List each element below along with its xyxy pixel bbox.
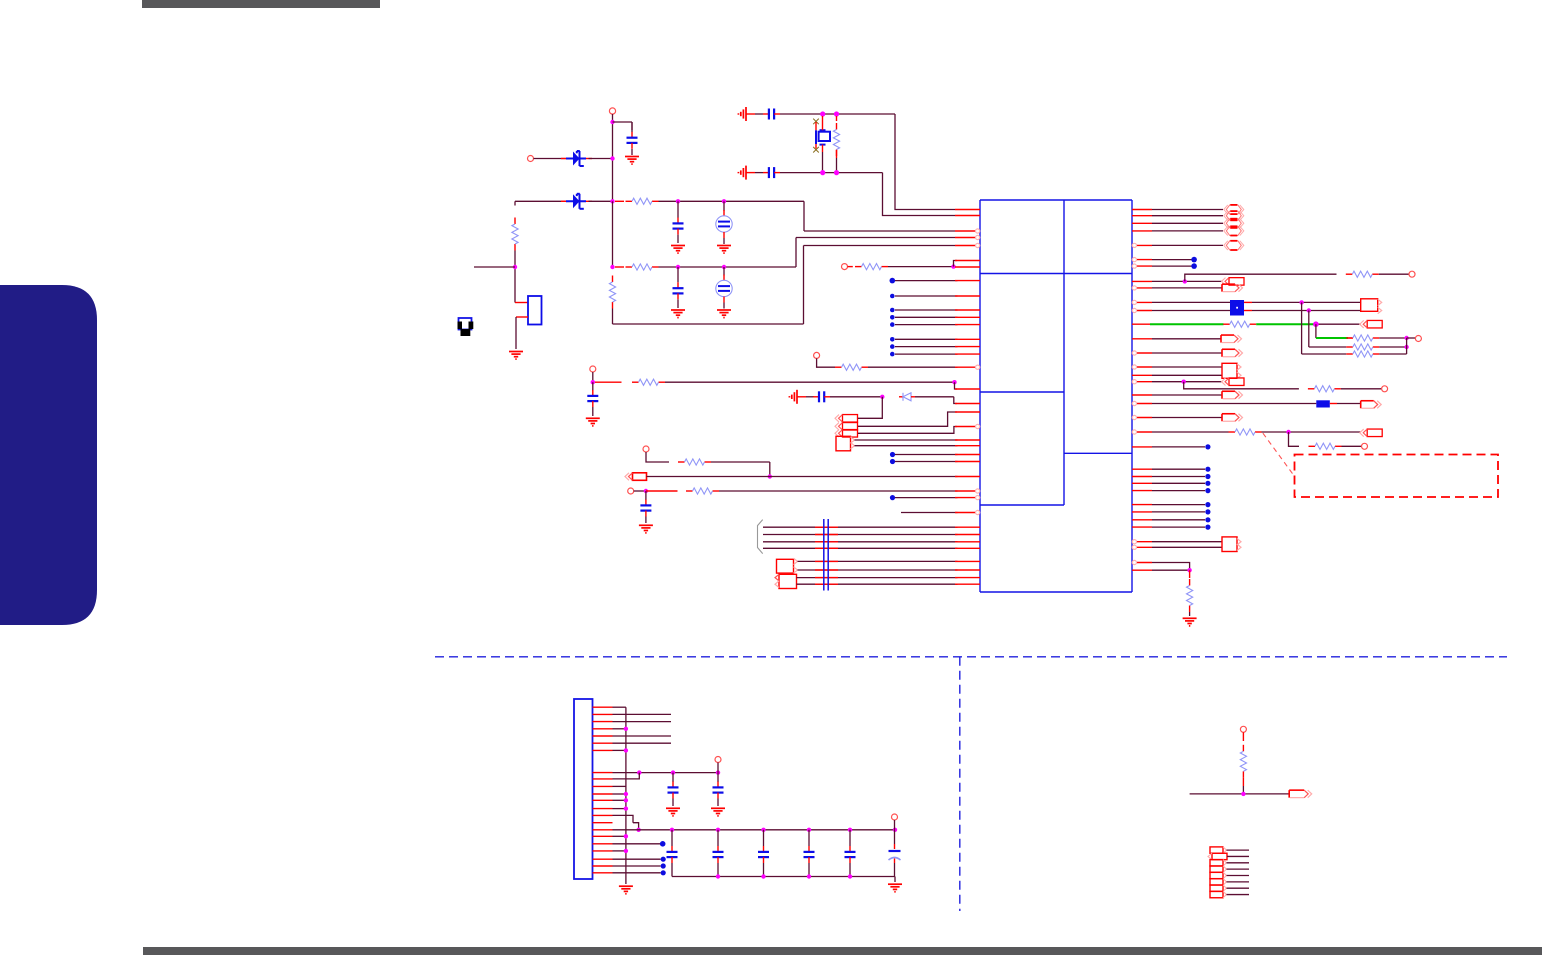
port P5 — [625, 473, 647, 481]
wire nc — [613, 858, 661, 860]
pin — [955, 411, 980, 413]
wire cap — [763, 830, 765, 877]
pin — [955, 403, 980, 405]
wire pin1 — [613, 706, 626, 708]
wire — [723, 201, 725, 211]
ground C10 — [639, 525, 653, 533]
junction — [893, 828, 897, 832]
wire branch A to IC — [804, 230, 955, 232]
junction — [820, 111, 825, 116]
capacitor C11 — [668, 782, 679, 799]
port PR10 — [1361, 401, 1382, 409]
section divider dashed vertical — [959, 657, 961, 911]
pin — [1132, 258, 1152, 262]
wire nc — [1152, 476, 1205, 478]
port PR12 — [1360, 429, 1383, 437]
port PR5 — [1221, 335, 1242, 343]
pin R5 top — [836, 116, 838, 121]
pin — [1132, 511, 1152, 513]
terminal — [715, 757, 721, 763]
port PR7 — [1222, 363, 1241, 378]
junction — [768, 474, 772, 478]
junction — [624, 798, 628, 802]
wire down — [1301, 302, 1303, 354]
wire — [1152, 546, 1222, 548]
wire P6b — [798, 569, 958, 571]
port bidir — [1224, 226, 1244, 235]
wire port — [1227, 881, 1250, 883]
port — [1210, 872, 1227, 878]
junction — [610, 199, 614, 203]
port P7 — [775, 574, 797, 588]
pin J1 — [593, 728, 613, 730]
port PR11 — [1222, 414, 1243, 422]
wire port — [1227, 894, 1250, 896]
wire — [631, 122, 633, 132]
junction — [820, 170, 825, 175]
wire — [723, 238, 725, 244]
wire to port — [1152, 244, 1223, 246]
junction — [807, 874, 811, 878]
junction — [716, 770, 720, 774]
wire P6a — [798, 560, 958, 562]
junction — [1182, 380, 1186, 384]
wire — [613, 728, 626, 730]
wire — [1152, 569, 1190, 571]
pin NC — [955, 280, 980, 282]
resistor R9 — [678, 459, 711, 465]
wire R5 to bottom — [836, 158, 838, 173]
port — [1210, 860, 1227, 866]
pin — [1132, 569, 1152, 571]
wire R9 — [711, 461, 770, 463]
wire — [1152, 541, 1222, 543]
wire bead to port — [1337, 403, 1361, 405]
wire T down — [592, 372, 594, 382]
wire terminal down — [717, 763, 719, 773]
wire R1 bottom — [514, 251, 516, 303]
no-connect X mark — [813, 147, 819, 153]
pin — [1132, 468, 1152, 470]
junction — [671, 770, 675, 774]
bus crossing — [815, 526, 838, 528]
junction — [670, 828, 674, 832]
wire R7 to IC — [868, 366, 958, 368]
wire crystal bottom — [780, 172, 883, 174]
no-connect — [890, 294, 895, 299]
wire — [1152, 352, 1222, 354]
wire to R16 — [1184, 382, 1299, 389]
pin — [1132, 230, 1152, 232]
wire — [717, 799, 719, 807]
no-connect — [661, 863, 666, 868]
terminal — [628, 488, 634, 494]
wire branch B corner — [795, 238, 797, 268]
wire terminal to rail — [894, 820, 896, 830]
pin — [1132, 280, 1152, 282]
wire stub long — [613, 735, 672, 737]
junction — [848, 874, 852, 878]
no-connect — [890, 322, 895, 327]
pin J1 — [593, 735, 613, 737]
wire — [613, 835, 626, 837]
no-connect X mark — [813, 119, 819, 125]
pin — [955, 365, 980, 369]
resistor R11 — [1346, 271, 1379, 277]
port bidir — [1224, 205, 1244, 214]
wire branch B to IC — [796, 237, 955, 239]
wire port — [1227, 887, 1250, 889]
pin L1 right — [1330, 403, 1337, 405]
wire down — [1308, 311, 1310, 348]
wire R13 — [1379, 337, 1406, 339]
wire gnd — [797, 396, 814, 398]
wire to D1 — [534, 158, 567, 160]
connector J1 — [574, 699, 593, 879]
IC U1 block — [980, 200, 1132, 592]
pin J1 — [593, 858, 613, 860]
wire nc — [1152, 519, 1205, 521]
pin X1 case bottom — [815, 144, 817, 149]
resistor R20 — [1240, 745, 1246, 778]
pin — [1132, 476, 1152, 478]
wire — [613, 793, 626, 795]
wire bus member — [763, 547, 958, 549]
no-connect — [890, 495, 895, 500]
wire cap — [894, 830, 896, 877]
terminal D1 anode — [528, 156, 534, 162]
capacitor — [713, 846, 724, 863]
wire to port — [1152, 230, 1223, 232]
resistor R18 — [1309, 443, 1342, 449]
no-connect — [1191, 257, 1197, 263]
pin — [1132, 243, 1152, 247]
side tab — [0, 285, 97, 625]
wire branch C corner — [803, 246, 805, 325]
pin — [1132, 380, 1152, 384]
diode D3 — [899, 393, 915, 401]
wire crystal top — [780, 113, 895, 115]
pin U2 right1 — [1244, 301, 1252, 303]
wire C8 bottom — [592, 407, 594, 416]
ferrite bead L1 — [1316, 400, 1330, 407]
capacitor — [667, 846, 678, 863]
pin — [1132, 560, 1152, 564]
wire port — [1227, 868, 1250, 870]
wire bus member — [763, 534, 958, 536]
pin NC — [955, 316, 980, 318]
terminal — [643, 446, 649, 452]
pin J1 — [593, 829, 613, 831]
wire nc — [1152, 265, 1192, 267]
terminal — [590, 366, 596, 372]
capacitor C4 — [673, 282, 684, 299]
wire P2 — [858, 412, 957, 426]
pin X1 case top — [815, 122, 817, 130]
capacitor C9 — [813, 391, 830, 402]
wire to port — [1152, 222, 1223, 224]
wire P7a — [797, 577, 958, 579]
wire down — [1289, 432, 1300, 446]
wire — [1152, 338, 1221, 340]
wire jog — [954, 397, 957, 404]
no-connect — [1205, 474, 1210, 479]
wire nc — [895, 454, 958, 456]
pin — [1132, 308, 1152, 312]
pin — [955, 534, 980, 536]
wire — [1152, 374, 1222, 376]
wire to C1 — [613, 121, 633, 123]
wire bus member — [763, 526, 958, 528]
pin J1 — [593, 865, 613, 867]
pin VCC — [955, 235, 980, 239]
wire cap — [849, 830, 851, 877]
icon thermistor — [458, 318, 474, 336]
resistor R4 — [609, 276, 615, 309]
resistor R3 — [626, 264, 659, 270]
pin — [1132, 394, 1152, 396]
wire — [613, 808, 626, 810]
junction — [722, 199, 726, 203]
pin — [955, 583, 980, 585]
wire stub long — [613, 721, 672, 723]
ground R19 — [1183, 618, 1197, 626]
wire — [1152, 417, 1222, 419]
resistor R10 — [686, 488, 719, 494]
wire branch C to IC — [804, 245, 956, 247]
pin — [1132, 209, 1152, 211]
no-connect — [890, 315, 895, 320]
wire to ground — [894, 877, 896, 883]
wire — [592, 382, 594, 390]
pin green — [1132, 323, 1150, 325]
junction — [951, 264, 955, 268]
wire — [1152, 280, 1223, 282]
wire green net 2 — [1256, 323, 1316, 325]
terminal VIN — [609, 108, 615, 114]
no-connect — [1205, 517, 1210, 522]
junction — [716, 874, 720, 878]
pin B1 lower — [516, 316, 528, 318]
no-connect — [1205, 481, 1210, 486]
junction — [761, 874, 765, 878]
wire nc — [613, 865, 661, 867]
pin NC — [955, 353, 980, 355]
wire — [645, 491, 647, 500]
resistor R5 — [833, 123, 839, 156]
resistor R12 — [1223, 321, 1256, 327]
pin NC — [955, 346, 980, 348]
wire green net — [1150, 323, 1224, 325]
pin NC — [955, 338, 980, 340]
pin — [1132, 286, 1152, 290]
junction — [848, 828, 852, 832]
junction — [1299, 300, 1303, 304]
pin J1 — [593, 822, 613, 824]
wire port — [1227, 862, 1250, 864]
junction — [1241, 792, 1245, 796]
ground C1 — [625, 157, 639, 165]
no-connect — [890, 278, 896, 284]
pin NC — [955, 309, 980, 311]
port P3 — [835, 430, 858, 438]
port PR9 — [1222, 391, 1243, 399]
wire P1 — [858, 397, 882, 419]
no-connect — [890, 459, 895, 464]
resistor R15 — [1346, 351, 1379, 357]
junction — [716, 828, 720, 832]
stub — [1348, 337, 1353, 339]
wire jog — [633, 823, 639, 830]
junction — [1404, 345, 1408, 349]
pin — [1132, 545, 1152, 549]
pin R2 left — [615, 200, 624, 202]
wire nc pin — [895, 338, 958, 340]
port bidir — [1224, 241, 1244, 250]
pin J1 — [593, 835, 613, 837]
terminal — [1362, 443, 1368, 449]
wire R1 top — [514, 201, 516, 205]
wire — [1152, 366, 1222, 368]
wire cap — [717, 830, 719, 877]
junction — [624, 727, 628, 731]
wire terminal down — [646, 452, 669, 462]
wire — [613, 785, 626, 787]
wire to terminal — [1407, 337, 1416, 339]
resistor R8 — [632, 379, 665, 385]
junction — [761, 828, 765, 832]
bus bracket — [758, 520, 763, 554]
no-connect — [1205, 444, 1210, 449]
terminal — [842, 264, 848, 270]
crystal X1 — [816, 130, 830, 144]
pin J1 — [593, 808, 613, 810]
junction — [676, 199, 680, 203]
pin R8 left — [595, 381, 622, 383]
ground — [789, 390, 797, 404]
power rail — [613, 829, 896, 831]
junction — [636, 828, 640, 832]
wire C10 bottom — [645, 517, 647, 524]
port — [1210, 885, 1227, 891]
wire branch A corner — [803, 201, 805, 231]
pin — [1132, 490, 1152, 492]
pin — [955, 569, 980, 571]
wire nc pin — [895, 316, 958, 318]
junction — [834, 111, 839, 116]
port bidir — [1224, 219, 1244, 228]
no-connect — [1205, 502, 1210, 507]
no-connect — [890, 352, 895, 357]
wire — [613, 799, 626, 801]
zener diode D2 — [561, 194, 592, 209]
polarized capacitor C5 — [716, 275, 732, 303]
pin — [1132, 338, 1152, 340]
pin — [1132, 482, 1152, 484]
pin J1 — [593, 706, 613, 708]
pin — [955, 424, 980, 428]
resistor R6 — [855, 264, 888, 270]
pin R19 top — [1189, 570, 1191, 578]
wire R12 to port — [1316, 323, 1361, 325]
wire X1 to bottom — [822, 152, 824, 173]
wire stub long — [613, 713, 672, 715]
terminal — [1415, 336, 1421, 342]
pin — [955, 266, 980, 268]
pin X1 bottom — [822, 145, 824, 152]
wire gnd-cap2 — [746, 172, 763, 174]
junction — [1187, 568, 1191, 572]
wire R17 to port — [1262, 431, 1361, 433]
pin — [955, 260, 980, 262]
pin — [955, 547, 980, 549]
ground C8 — [586, 418, 600, 426]
port P2 — [835, 423, 858, 431]
wire nc — [1152, 468, 1205, 470]
wire port — [1227, 875, 1250, 877]
pin J1 — [593, 793, 613, 795]
pin — [1132, 365, 1152, 369]
wire to diode — [830, 396, 882, 398]
capacitor — [845, 846, 856, 863]
pin J1 — [593, 742, 613, 744]
wire net — [1190, 793, 1290, 795]
pin J1 — [593, 850, 613, 852]
terminal — [1409, 271, 1415, 277]
pin — [1132, 540, 1152, 544]
port — [1210, 879, 1227, 885]
junction — [624, 792, 628, 796]
pin VREF — [955, 243, 980, 247]
wire nc pin — [895, 295, 958, 297]
pin VBAT — [955, 229, 980, 233]
pin — [955, 541, 980, 543]
footer bar — [143, 947, 1542, 955]
no-connect — [890, 344, 895, 349]
wire jog up — [613, 773, 640, 779]
wire nc — [1152, 490, 1205, 492]
capacitor — [804, 846, 815, 863]
note dashed leader — [1263, 433, 1294, 475]
junction — [1313, 321, 1319, 327]
pin — [955, 577, 980, 579]
pin — [1132, 526, 1152, 528]
junction — [1183, 279, 1187, 283]
junction — [624, 849, 628, 853]
wire jog — [1152, 563, 1190, 571]
wire — [1152, 310, 1230, 312]
wire vertical join — [1406, 338, 1408, 354]
pin — [955, 476, 980, 478]
ground C3 — [717, 246, 731, 254]
resistor R7 — [835, 364, 868, 370]
wire row2 — [1309, 346, 1347, 348]
no-connect — [890, 308, 895, 313]
capacitor C6 — [763, 109, 780, 120]
pin J1 — [593, 721, 613, 723]
wire cap — [808, 830, 810, 877]
junction — [624, 806, 628, 810]
resistor R1 — [512, 218, 518, 251]
wire R10 to IC — [719, 490, 958, 492]
pin XIN — [955, 209, 980, 211]
port P1 — [835, 415, 858, 423]
wire branch B — [659, 266, 797, 268]
wire to port — [1152, 215, 1223, 217]
pin J1 — [593, 785, 613, 787]
port — [1210, 847, 1227, 853]
ground J1 — [619, 886, 633, 894]
